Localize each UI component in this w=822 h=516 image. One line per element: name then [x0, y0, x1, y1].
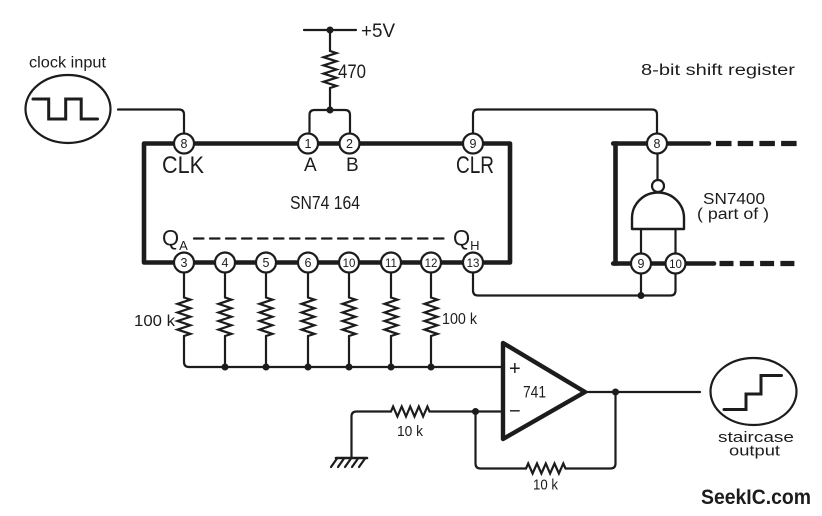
svg-text:741: 741	[523, 383, 546, 402]
node bus junction 6	[305, 364, 312, 371]
wire resistor QA to bus	[184, 336, 189, 367]
pin 12	[421, 253, 441, 273]
svg-text:3: 3	[181, 256, 188, 270]
wire pin 6 to resistor	[307, 273, 309, 298]
pin 9 NAND input	[631, 254, 651, 274]
wire resistor QD to bus	[307, 336, 309, 367]
pin 2 B	[340, 134, 360, 154]
wire feedback left leg	[476, 412, 527, 469]
svg-text:4: 4	[222, 256, 229, 270]
svg-text:10 k: 10 k	[533, 477, 558, 494]
resistor 10k feedback	[526, 464, 566, 474]
svg-text:−: −	[509, 401, 521, 423]
wire 10k to ground	[352, 412, 392, 459]
svg-text:+: +	[509, 358, 521, 380]
node inverting input junction	[472, 408, 479, 415]
wire feedback right leg	[566, 392, 616, 469]
pin 10 NAND input	[666, 254, 686, 274]
resistor 100k (QF)	[385, 298, 398, 337]
svg-text:( part of ): ( part of )	[697, 206, 769, 223]
svg-text:9: 9	[470, 137, 477, 151]
wire resistor QG to bus	[430, 336, 432, 367]
pin 1 A	[298, 134, 318, 154]
svg-text:9: 9	[638, 257, 645, 271]
pin 6	[298, 253, 318, 273]
svg-text:6: 6	[305, 256, 312, 270]
pin 5	[256, 253, 276, 273]
svg-text:470: 470	[338, 62, 366, 83]
wire bracket to pins A and B	[310, 110, 351, 132]
resistor 100k (QE)	[343, 298, 356, 337]
wire pin 10 to resistor	[348, 273, 350, 298]
wire +5V to resistor	[329, 30, 331, 51]
svg-text:QA: QA	[162, 226, 188, 254]
op-amp 741	[503, 343, 585, 439]
svg-text:11: 11	[385, 258, 397, 270]
svg-text:clock input: clock input	[29, 55, 107, 72]
wire pin 3 to resistor	[183, 273, 185, 298]
node output junction	[612, 389, 619, 396]
wire pin 12 to resistor	[430, 273, 432, 298]
node bus junction 10	[346, 364, 353, 371]
nand gate SN7400	[632, 154, 684, 253]
wire resistor QF to bus	[390, 336, 392, 367]
svg-text:2: 2	[346, 137, 353, 151]
svg-text:8-bit shift register: 8-bit shift register	[641, 62, 795, 79]
clock input source symbol	[26, 75, 111, 143]
ground	[331, 458, 367, 467]
pin 3	[174, 253, 194, 273]
svg-text:10: 10	[669, 259, 682, 271]
wire pin 11 to resistor	[390, 273, 392, 298]
svg-text:A: A	[304, 155, 317, 176]
wire summing bus to op-amp + input	[189, 366, 503, 368]
pin 10	[339, 253, 359, 273]
node bus junction 12	[428, 364, 435, 371]
svg-text:QH: QH	[453, 226, 480, 254]
pin 13 QH	[463, 253, 483, 273]
IC U1 SN74164 body	[144, 144, 510, 263]
svg-text:12: 12	[425, 258, 438, 270]
pin 11	[381, 253, 401, 273]
pin 8 NAND output	[647, 134, 667, 154]
resistor 470	[324, 51, 337, 88]
svg-text:CLR: CLR	[456, 152, 494, 179]
svg-text:100 k: 100 k	[134, 313, 176, 330]
wire NAND input pin 9 drop	[640, 274, 642, 296]
node NAND input junction	[638, 292, 645, 299]
wire op-amp output	[585, 391, 700, 393]
node bus junction 5	[263, 364, 270, 371]
pin 9 CLR	[463, 134, 483, 154]
node bus junction 11	[388, 364, 395, 371]
label staircase output	[718, 429, 794, 460]
svg-text:13: 13	[467, 258, 480, 270]
wire resistor to A/B bracket	[329, 88, 331, 110]
svg-text:B: B	[346, 155, 359, 176]
node A-B junction	[327, 107, 334, 114]
svg-text:SN74 164: SN74 164	[290, 192, 360, 213]
svg-text:8: 8	[654, 137, 661, 151]
+5V rail wire	[304, 29, 356, 31]
resistor 100k (QB)	[219, 298, 232, 337]
svg-text:10: 10	[343, 258, 356, 270]
resistor 100k (QG)	[425, 298, 438, 337]
node +5V junction	[327, 27, 334, 34]
svg-text:+5V: +5V	[361, 21, 395, 42]
IC U2 SN7400 body (partial with dashed continuation)	[613, 141, 799, 266]
resistor 100k (QD)	[302, 298, 315, 337]
svg-text:8: 8	[181, 137, 188, 151]
pin 4	[215, 253, 235, 273]
svg-text:CLK: CLK	[162, 152, 204, 179]
wire pin 4 to resistor	[224, 273, 226, 298]
dashed line QA to QH	[194, 237, 448, 239]
pin 8 CLK	[174, 134, 194, 154]
wire inverting input	[430, 410, 504, 412]
resistor 100k (QC)	[260, 298, 273, 337]
staircase output symbol	[711, 358, 797, 425]
resistor 10k input	[391, 407, 430, 417]
wire resistor QC to bus	[265, 336, 267, 367]
svg-text:100 k: 100 k	[442, 311, 478, 328]
wire resistor QB to bus	[224, 336, 226, 367]
svg-text:1: 1	[305, 137, 312, 151]
node bus junction 4	[222, 364, 229, 371]
wire clock to CLK pin 8	[118, 110, 184, 133]
svg-text:10 k: 10 k	[397, 423, 423, 440]
svg-text:output: output	[729, 443, 781, 460]
svg-text:5: 5	[263, 256, 270, 270]
svg-text:SeekIC.com: SeekIC.com	[701, 486, 811, 509]
wire pin 13 to NAND inputs	[473, 273, 676, 296]
wire pin 5 to resistor	[265, 273, 267, 298]
wire CLR pin 9 to SN7400 pin 8	[473, 110, 657, 133]
resistor 100k (QA)	[178, 298, 191, 337]
wire resistor QE to bus	[348, 336, 350, 367]
